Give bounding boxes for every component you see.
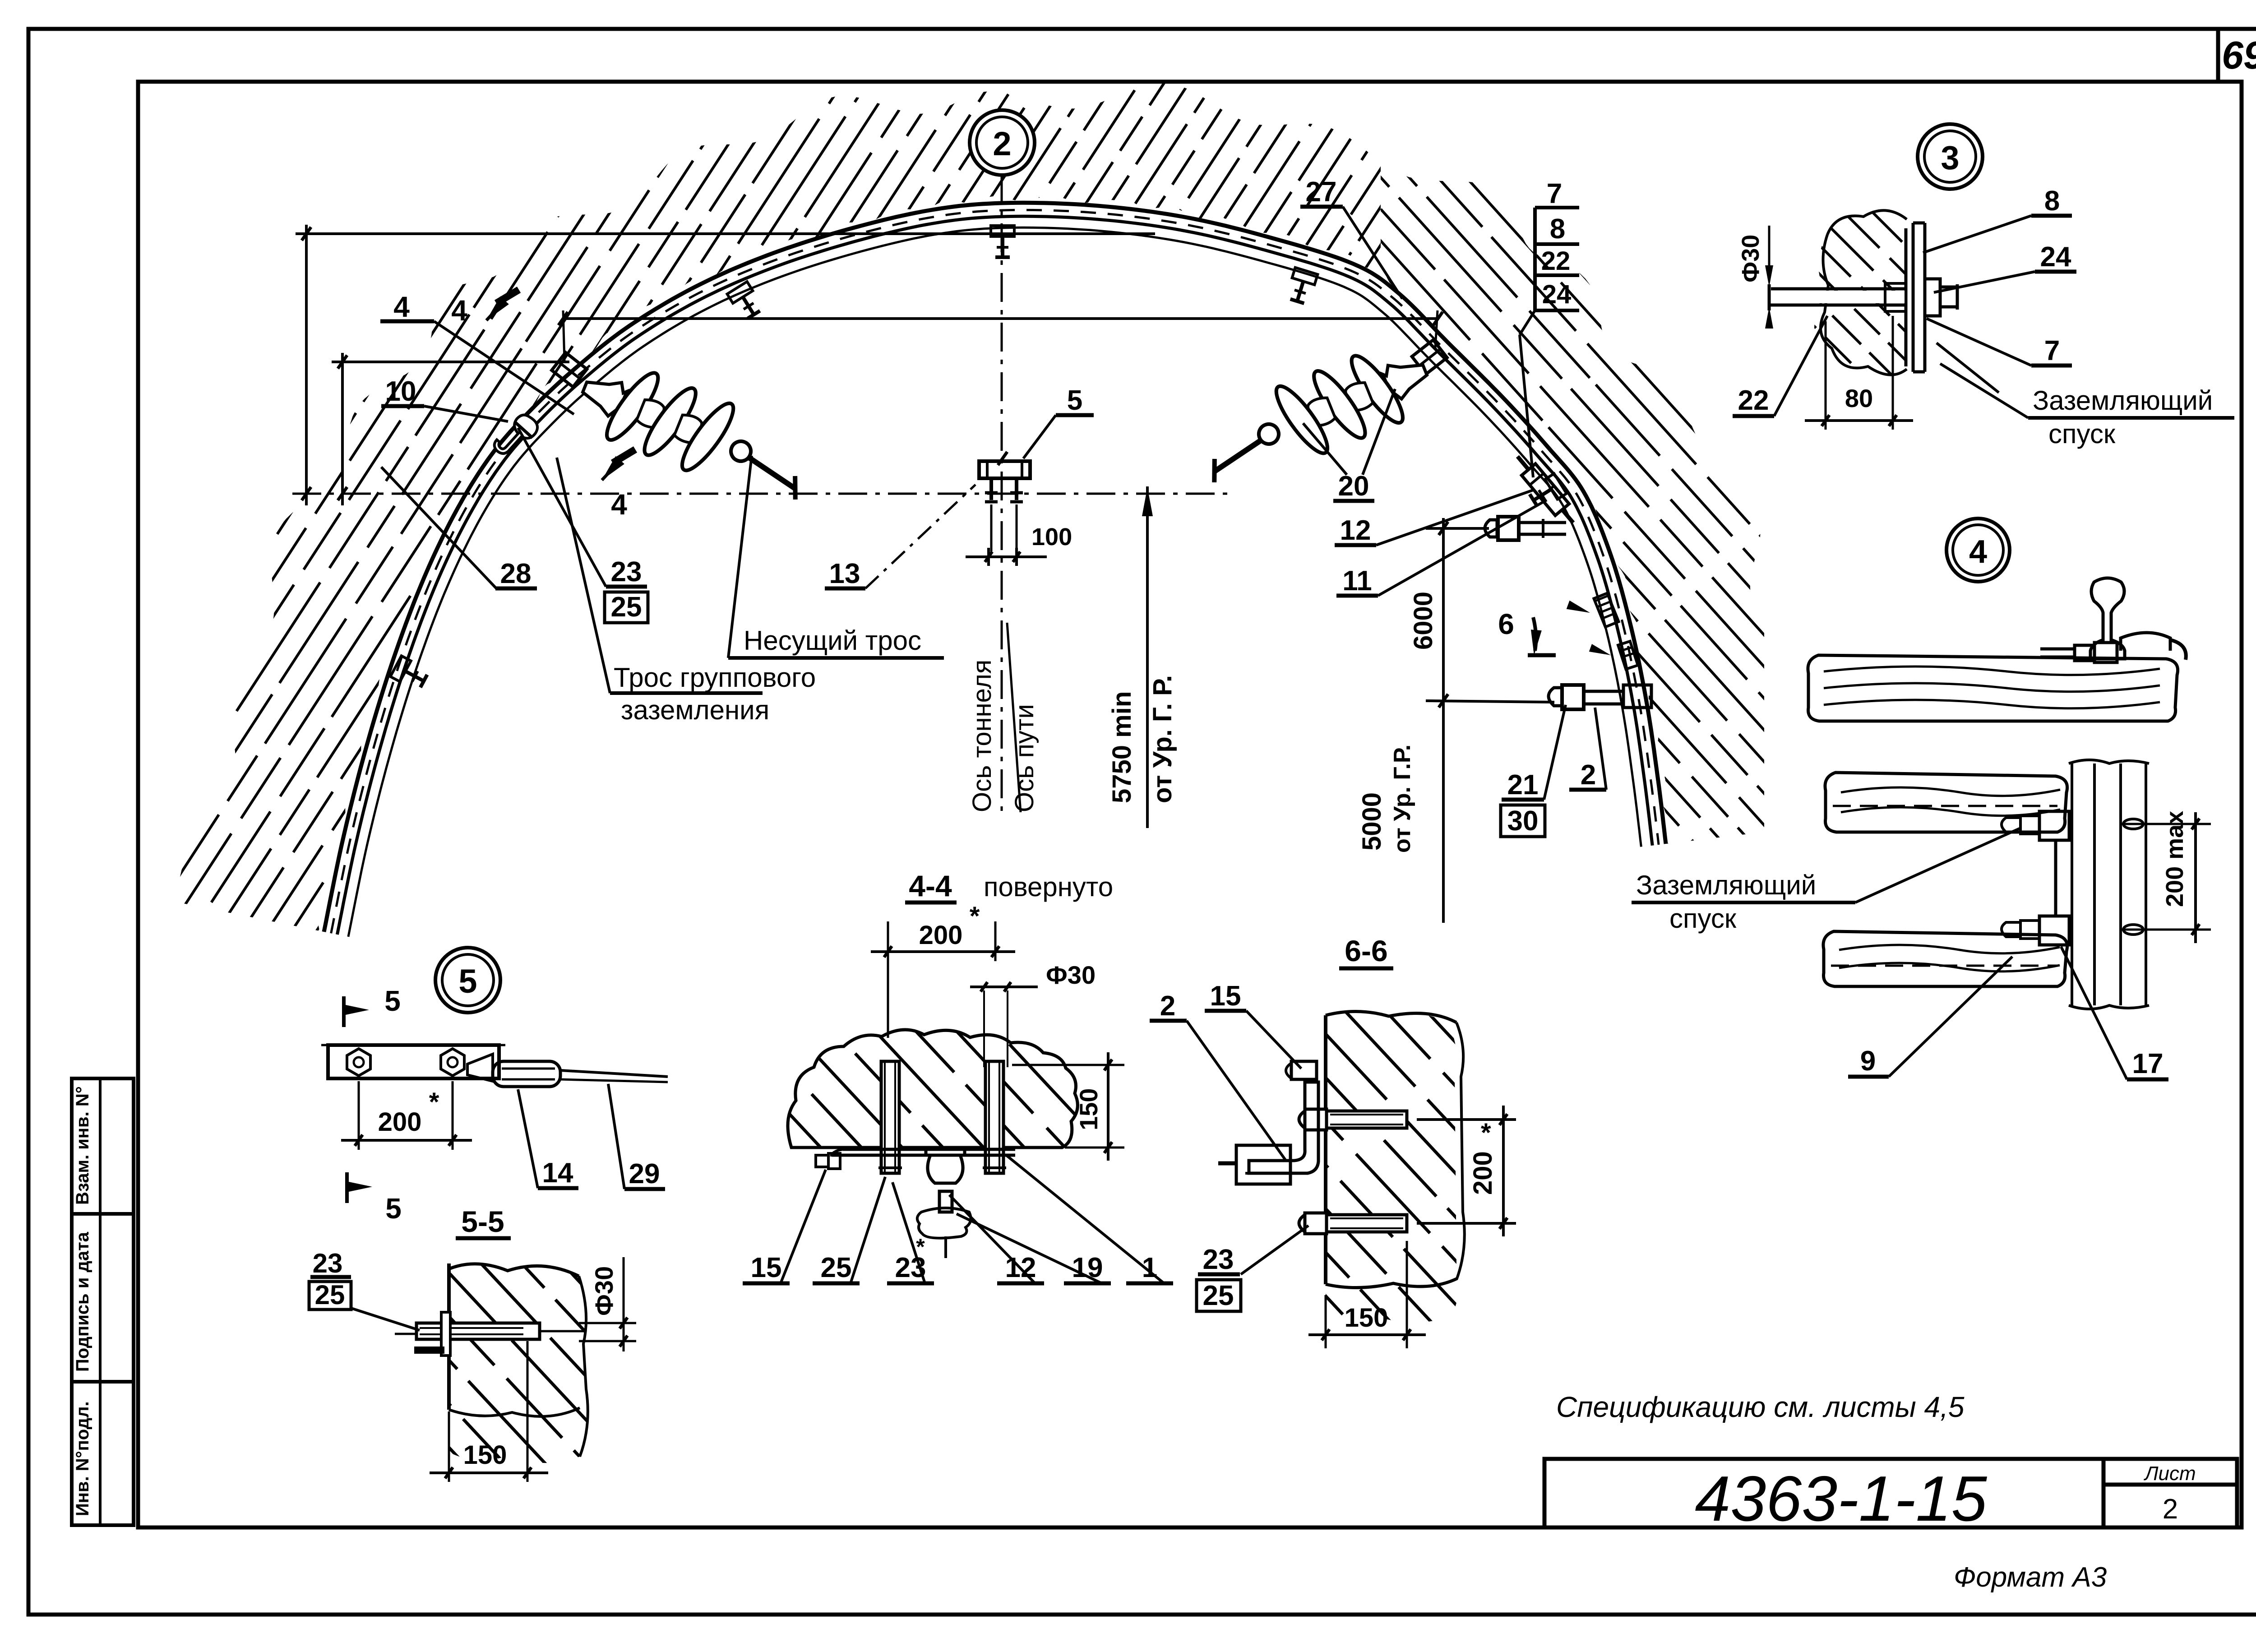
detail 4 tunnel lining wall strip (2071, 764, 2073, 1005)
svg-text:Инв. N°подл.: Инв. N°подл. (73, 1401, 92, 1516)
svg-text:15: 15 (1210, 981, 1241, 1012)
svg-text:9: 9 (1860, 1046, 1876, 1077)
svg-text:Подпись и дата: Подпись и дата (73, 1231, 92, 1372)
svg-text:5750 min: 5750 min (1107, 691, 1137, 803)
svg-text:от Ур. Г. Р.: от Ур. Г. Р. (1148, 675, 1177, 803)
dimension 100 (987, 548, 990, 566)
4-4 dimension Ф30 (970, 986, 1038, 988)
svg-text:14: 14 (542, 1157, 573, 1189)
svg-text:Лист: Лист (2143, 1462, 2196, 1485)
detail 4 lower sleeper (1823, 931, 2067, 986)
svg-text:22: 22 (1541, 246, 1571, 276)
svg-text:25: 25 (315, 1280, 345, 1310)
cable hanger lower left flank (390, 656, 429, 691)
svg-text:22: 22 (1738, 385, 1769, 416)
detail 4 middle sleeper (1825, 773, 2067, 832)
horizontal datum axis (dash-dot) (292, 493, 1227, 495)
section marker 5 upper (342, 996, 346, 1027)
svg-text:*: * (429, 1087, 439, 1117)
6-6 dimension 150 (1325, 1295, 1327, 1348)
svg-text:100: 100 (1031, 523, 1072, 551)
cable hanger bolt right flank (1286, 268, 1318, 305)
svg-text:Ф30: Ф30 (590, 1266, 618, 1316)
svg-text:11: 11 (1342, 565, 1372, 597)
page number box 69 (2216, 29, 2220, 82)
5-5 washer plate at wall face (441, 1312, 450, 1356)
6-6 bolt head top (1291, 1061, 1317, 1079)
section marker 4 lower (613, 449, 635, 463)
cable tension anchor on right wall (1511, 451, 1580, 529)
svg-text:4: 4 (393, 291, 410, 323)
cable wall anchor clamp 1 (1594, 593, 1618, 627)
svg-text:Несущий трос: Несущий трос (744, 625, 921, 656)
svg-text:23: 23 (313, 1248, 343, 1278)
svg-text:12: 12 (1340, 515, 1371, 546)
dimension 5750 min from rail level (1146, 486, 1149, 828)
6-6 upper anchor bolt (1327, 1111, 1407, 1128)
6-6 dimension 200* (1417, 1118, 1516, 1121)
svg-text:спуск: спуск (2048, 419, 2116, 449)
dimension 6000 (1442, 518, 1445, 923)
right insulator string (1189, 331, 1441, 498)
svg-text:5-5: 5-5 (461, 1205, 504, 1238)
svg-text:Ф30: Ф30 (1046, 961, 1096, 989)
vertical tunnel axis (dash-dot) (1001, 174, 1003, 819)
cable hook fitting lower left (491, 411, 542, 463)
4-4 dimension 200* (887, 921, 889, 1038)
svg-text:от Ур. Г.Р.: от Ур. Г.Р. (1389, 745, 1415, 853)
svg-text:27: 27 (1306, 176, 1337, 208)
rock hatching band around arch (171, 54, 1764, 1002)
svg-text:23: 23 (611, 556, 642, 588)
4-4 centre clevis and insulator (926, 1149, 965, 1155)
anchor bolt at 6000 level (1485, 520, 1497, 537)
svg-text:спуск: спуск (1669, 903, 1737, 934)
svg-text:25: 25 (611, 592, 642, 623)
svg-text:69: 69 (2222, 34, 2256, 77)
svg-text:200: 200 (919, 921, 963, 950)
lining joint dashed line (331, 210, 1659, 933)
view bubble 2 (970, 110, 1035, 175)
detail 3 wall face plate (1905, 228, 1908, 366)
crown height dimension line (305, 225, 308, 505)
6-6 wall with hatch (1326, 1012, 1459, 1323)
svg-text:5: 5 (458, 963, 477, 1000)
section marker 5 lower (345, 1172, 349, 1203)
svg-text:6-6: 6-6 (1345, 934, 1387, 967)
svg-text:24: 24 (2040, 241, 2071, 273)
svg-text:150: 150 (1345, 1303, 1388, 1333)
5-5 anchor bolt (416, 1323, 540, 1339)
svg-text:8: 8 (1550, 213, 1565, 245)
detail 5 cable clamp (467, 1054, 493, 1081)
svg-text:20: 20 (1338, 471, 1369, 502)
svg-text:Ось тоннеля: Ось тоннеля (967, 660, 997, 812)
svg-text:Взам. инв. N°: Взам. инв. N° (73, 1086, 92, 1205)
tunnel lining inner line (337, 216, 1652, 935)
svg-text:2: 2 (993, 125, 1011, 162)
svg-text:6: 6 (1498, 608, 1514, 640)
svg-text:2: 2 (1160, 990, 1175, 1022)
5-5 grounding stub (414, 1347, 444, 1354)
5-5 dimension 150 (448, 1411, 450, 1482)
tunnel arch outer excavation line (324, 203, 1666, 932)
svg-text:5: 5 (385, 1192, 402, 1225)
svg-text:150: 150 (463, 1440, 507, 1470)
view bubble 3 (1918, 124, 1983, 189)
svg-text:4363-1-15: 4363-1-15 (1695, 1463, 1987, 1535)
left suspension clamp on arch (552, 352, 587, 387)
detail 3 dimension 80 (1825, 321, 1827, 430)
detail 4 connecting conductor (2054, 840, 2057, 916)
svg-text:7: 7 (1547, 178, 1562, 209)
centre contact suspension clamp (node 5) (979, 461, 1030, 478)
svg-text:Спецификацию см. листы 4,5: Спецификацию см. листы 4,5 (1556, 1391, 1965, 1423)
view bubble 4 (1946, 518, 2010, 582)
svg-text:заземления: заземления (621, 695, 769, 725)
6-6 lower anchor bolt (1327, 1215, 1407, 1232)
group grounding cable along lining (348, 227, 1641, 937)
cable hanger bolt at crown (991, 226, 1014, 257)
5-5 wall with hatch (449, 1264, 588, 1463)
4-4 left bolt end with nuts (828, 1153, 840, 1169)
cable hanger bolt left flank (727, 282, 764, 321)
svg-text:80: 80 (1845, 384, 1873, 412)
svg-text:4-4: 4-4 (909, 869, 952, 902)
cable wall anchor clamp 2 (1618, 641, 1638, 669)
svg-text:*: * (1481, 1118, 1491, 1148)
4-4 dimension 150 (1012, 1064, 1124, 1066)
5-5 dimension Ф30 (579, 1322, 636, 1324)
svg-text:повернуто: повернуто (984, 872, 1113, 902)
svg-text:Формат А3: Формат А3 (1954, 1562, 2107, 1593)
svg-text:10: 10 (385, 376, 416, 407)
svg-text:*: * (970, 902, 980, 931)
svg-text:200: 200 (378, 1107, 422, 1137)
right suspension clamp on arch (1412, 340, 1447, 374)
svg-text:5000: 5000 (1357, 792, 1387, 851)
svg-text:19: 19 (1072, 1252, 1103, 1283)
svg-text:6000: 6000 (1409, 592, 1438, 650)
insulator level dimension line (341, 353, 344, 505)
svg-text:2: 2 (1581, 759, 1596, 791)
6-6 grounding bracket (1249, 1082, 1318, 1173)
svg-text:13: 13 (829, 558, 860, 589)
detail 3 rock blob (1814, 210, 1907, 375)
svg-text:24: 24 (1542, 280, 1572, 309)
svg-text:Трос группового: Трос группового (614, 662, 816, 693)
detail 5 bolts (347, 1049, 370, 1076)
view bubble 5 (435, 948, 500, 1013)
svg-text:Заземляющий: Заземляющий (2033, 385, 2213, 416)
svg-text:28: 28 (500, 558, 532, 589)
svg-text:29: 29 (629, 1158, 660, 1189)
detail 4 hook bolt on sleeper (2121, 633, 2170, 651)
detail 4 dimension 200max (2121, 823, 2211, 825)
svg-text:25: 25 (821, 1252, 852, 1283)
4-4 strap (843, 1148, 1015, 1151)
svg-text:3: 3 (1941, 139, 1959, 176)
cable hanger bolt right wall upper (1527, 474, 1567, 510)
svg-text:21: 21 (1507, 769, 1539, 801)
svg-text:8: 8 (2044, 185, 2060, 217)
svg-text:25: 25 (1203, 1280, 1234, 1311)
svg-text:Заземляющий: Заземляющий (1636, 870, 1816, 900)
svg-text:4: 4 (611, 488, 627, 521)
anchor bolt at 5000 level (1549, 688, 1562, 706)
detail 4 rail cross-section (2090, 578, 2125, 659)
svg-text:150: 150 (1074, 1088, 1103, 1130)
4-4 concrete blob with hatch (788, 1030, 1077, 1148)
left insulator string (569, 348, 821, 515)
svg-text:4: 4 (1969, 534, 1987, 570)
span dimension between suspension points (563, 317, 1438, 320)
svg-text:Ф30: Ф30 (1737, 235, 1764, 282)
detail 5 dimension 200* (358, 1081, 360, 1150)
svg-text:30: 30 (1507, 805, 1539, 837)
svg-text:200: 200 (1468, 1151, 1498, 1195)
stamp column frame (72, 1078, 134, 1525)
detail 3 anchor rod (1771, 287, 1906, 291)
section marker 4 upper (496, 290, 519, 303)
svg-text:15: 15 (751, 1252, 782, 1283)
title block (1544, 1459, 2237, 1527)
svg-text:2: 2 (2163, 1494, 2178, 1525)
svg-text:23: 23 (1203, 1244, 1234, 1275)
svg-text:5: 5 (384, 985, 401, 1017)
detail 4 lower clamp (2039, 916, 2069, 945)
detail 3 nut and bolt tip (1925, 279, 1940, 316)
detail 5 bracket plate (328, 1045, 499, 1078)
detail 4 top sleeper (1808, 655, 2178, 721)
svg-text:200 max: 200 max (2161, 811, 2188, 907)
detail 4 upper clamp (2039, 811, 2069, 840)
svg-text:4: 4 (451, 294, 467, 327)
svg-text:7: 7 (2044, 335, 2060, 366)
svg-text:5: 5 (1067, 385, 1082, 416)
svg-text:17: 17 (2132, 1048, 2164, 1079)
4-4 anchor bolts (881, 1061, 899, 1173)
